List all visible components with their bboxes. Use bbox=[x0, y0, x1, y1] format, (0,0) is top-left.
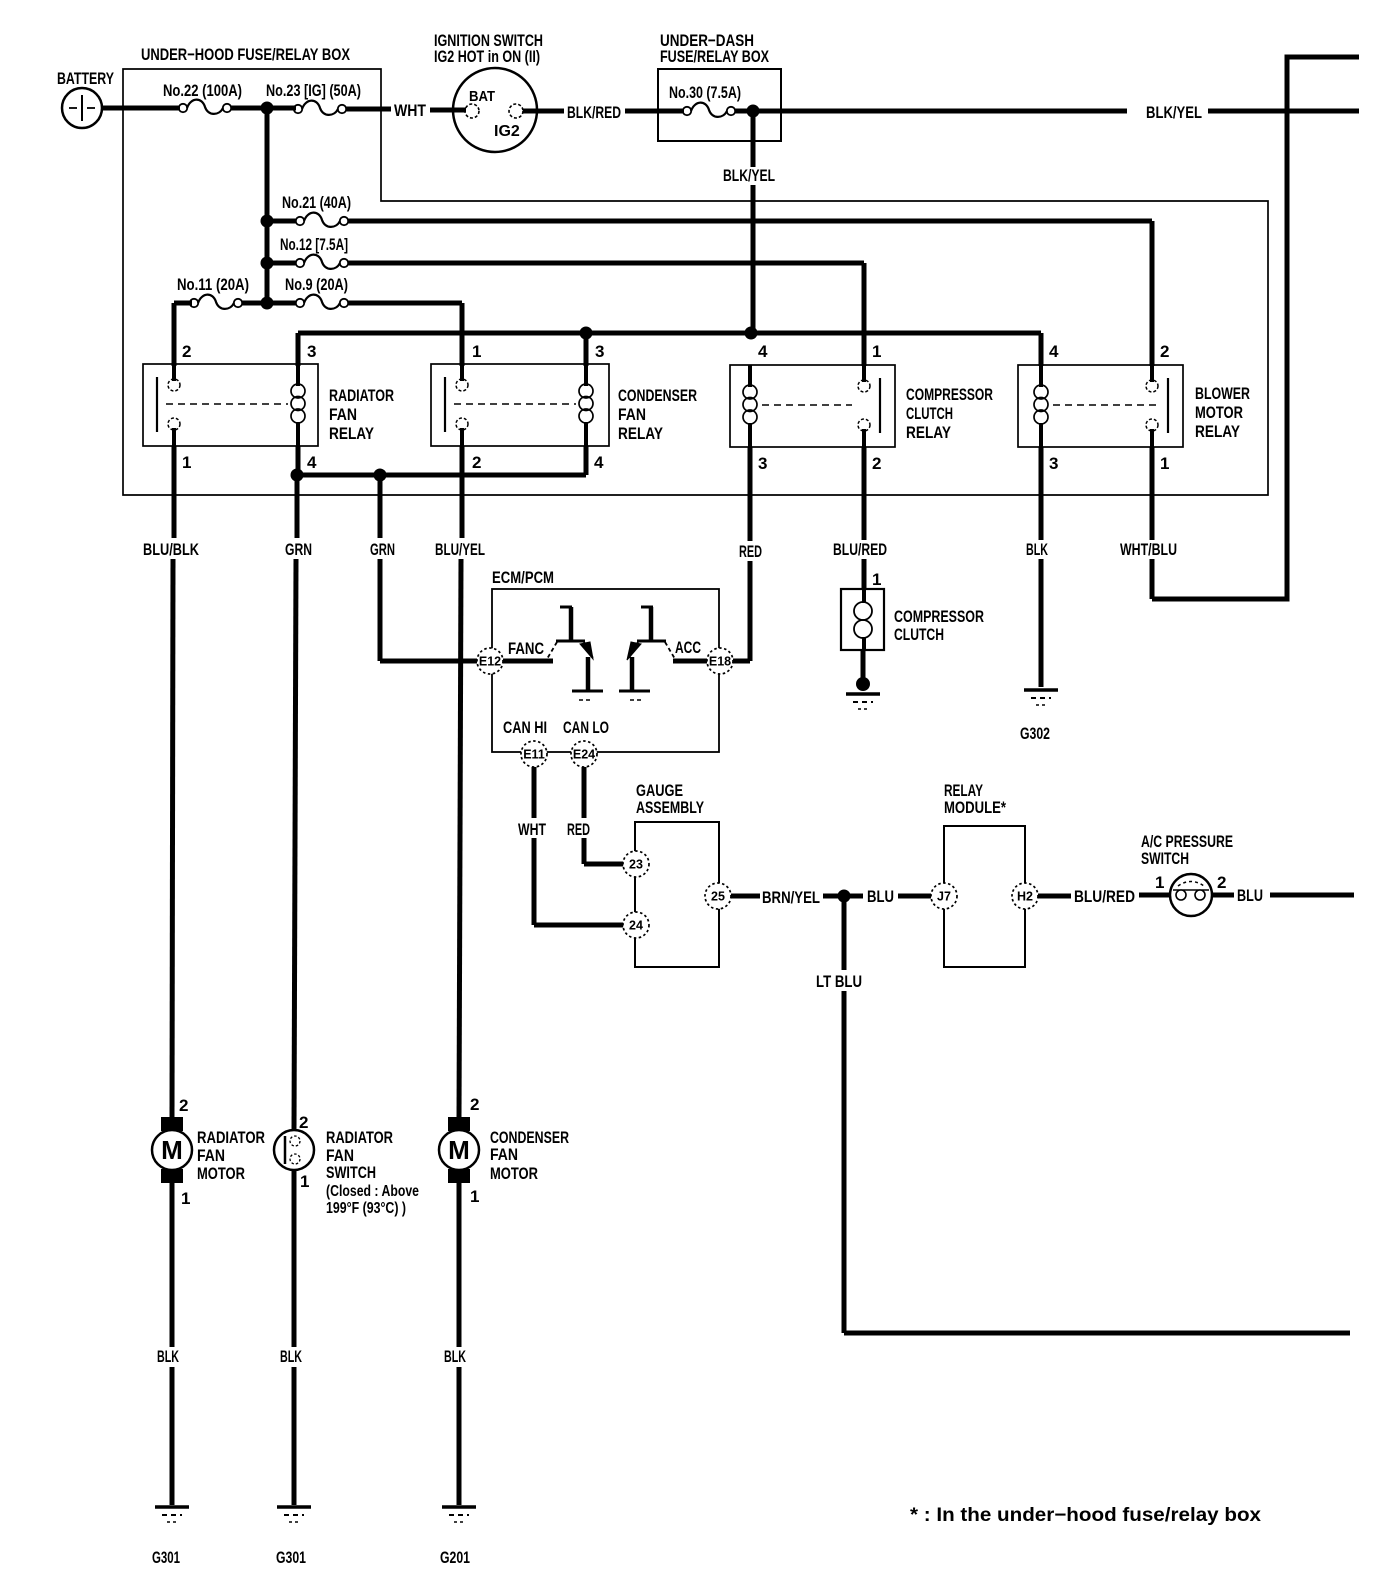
svg-text:J7: J7 bbox=[937, 890, 951, 904]
svg-text:1: 1 bbox=[181, 1189, 190, 1208]
svg-text:COMPRESSOR: COMPRESSOR bbox=[894, 607, 984, 626]
svg-text:2: 2 bbox=[179, 1096, 188, 1115]
svg-text:FANC: FANC bbox=[508, 639, 544, 658]
svg-text:CLUTCH: CLUTCH bbox=[894, 625, 944, 644]
svg-text:RADIATOR: RADIATOR bbox=[329, 386, 394, 405]
svg-text:1: 1 bbox=[472, 342, 481, 361]
svg-text:MODULE*: MODULE* bbox=[944, 798, 1006, 817]
svg-text:RADIATOR: RADIATOR bbox=[326, 1128, 393, 1147]
svg-text:MOTOR: MOTOR bbox=[1195, 403, 1243, 422]
svg-text:1: 1 bbox=[300, 1172, 309, 1191]
svg-text:WHT: WHT bbox=[518, 820, 546, 839]
svg-text:FAN: FAN bbox=[490, 1145, 518, 1164]
svg-text:COMPRESSOR: COMPRESSOR bbox=[906, 385, 993, 404]
svg-text:RELAY: RELAY bbox=[329, 424, 375, 443]
svg-text:1: 1 bbox=[1155, 873, 1164, 892]
svg-text:BLU/RED: BLU/RED bbox=[1074, 887, 1135, 906]
svg-text:BLK/YEL: BLK/YEL bbox=[723, 166, 775, 185]
svg-text:3: 3 bbox=[595, 342, 604, 361]
svg-text:ACC: ACC bbox=[675, 638, 701, 657]
svg-text:G301: G301 bbox=[152, 1548, 180, 1567]
svg-text:BLK/YEL: BLK/YEL bbox=[1146, 103, 1202, 122]
svg-text:BATTERY: BATTERY bbox=[57, 69, 114, 88]
svg-text:No.12 [7.5A]: No.12 [7.5A] bbox=[280, 236, 348, 254]
svg-text:UNDER−HOOD FUSE/RELAY BOX: UNDER−HOOD FUSE/RELAY BOX bbox=[141, 45, 350, 64]
svg-text:1: 1 bbox=[872, 570, 881, 589]
svg-text:4: 4 bbox=[307, 453, 317, 472]
svg-text:ASSEMBLY: ASSEMBLY bbox=[636, 798, 704, 817]
svg-text:BLOWER: BLOWER bbox=[1195, 384, 1250, 403]
svg-text:2: 2 bbox=[872, 454, 881, 473]
svg-text:SWITCH: SWITCH bbox=[326, 1163, 376, 1182]
svg-text:BLK: BLK bbox=[444, 1347, 466, 1366]
svg-text:1: 1 bbox=[182, 453, 191, 472]
svg-text:3: 3 bbox=[307, 342, 316, 361]
svg-text:BLK: BLK bbox=[157, 1347, 179, 1366]
svg-text:BLU: BLU bbox=[1237, 886, 1263, 905]
svg-text:IG2: IG2 bbox=[494, 123, 520, 140]
svg-text:WHT/BLU: WHT/BLU bbox=[1120, 540, 1177, 559]
svg-text:2: 2 bbox=[299, 1113, 308, 1132]
svg-text:E11: E11 bbox=[523, 748, 545, 762]
svg-text:H2: H2 bbox=[1017, 890, 1033, 904]
svg-text:No.30 (7.5A): No.30 (7.5A) bbox=[669, 84, 741, 102]
svg-text:1: 1 bbox=[872, 342, 881, 361]
svg-text:BRN/YEL: BRN/YEL bbox=[762, 888, 820, 907]
svg-text:3: 3 bbox=[1049, 454, 1058, 473]
svg-text:2: 2 bbox=[472, 453, 481, 472]
svg-text:2: 2 bbox=[470, 1095, 479, 1114]
svg-text:SWITCH: SWITCH bbox=[1141, 849, 1189, 868]
svg-text:BLU: BLU bbox=[867, 887, 894, 906]
svg-text:(Closed : Above: (Closed : Above bbox=[326, 1183, 419, 1200]
svg-text:BAT: BAT bbox=[469, 88, 495, 105]
svg-text:CAN HI: CAN HI bbox=[503, 718, 547, 737]
svg-text:4: 4 bbox=[1049, 342, 1059, 361]
svg-text:G301: G301 bbox=[276, 1548, 306, 1567]
svg-text:FUSE/RELAY BOX: FUSE/RELAY BOX bbox=[660, 47, 769, 66]
svg-text:24: 24 bbox=[629, 919, 643, 933]
svg-text:BLU/RED: BLU/RED bbox=[833, 540, 887, 559]
svg-text:GRN: GRN bbox=[370, 540, 395, 559]
svg-text:23: 23 bbox=[629, 858, 643, 872]
svg-text:E24: E24 bbox=[573, 748, 595, 762]
svg-text:4: 4 bbox=[758, 342, 768, 361]
svg-text:BLK: BLK bbox=[1026, 540, 1048, 559]
svg-text:FAN: FAN bbox=[618, 405, 646, 424]
svg-text:RELAY: RELAY bbox=[1195, 422, 1241, 441]
svg-text:GRN: GRN bbox=[285, 540, 312, 559]
svg-text:No.22 (100A): No.22 (100A) bbox=[163, 82, 242, 100]
svg-text:E12: E12 bbox=[479, 655, 501, 669]
svg-text:RED: RED bbox=[567, 820, 590, 839]
svg-text:CLUTCH: CLUTCH bbox=[906, 404, 953, 423]
svg-text:CAN LO: CAN LO bbox=[563, 718, 609, 737]
svg-text:No.21 (40A): No.21 (40A) bbox=[282, 194, 351, 212]
svg-text:25: 25 bbox=[711, 890, 725, 904]
svg-text:2: 2 bbox=[1160, 342, 1169, 361]
svg-text:RELAY: RELAY bbox=[618, 424, 664, 443]
svg-text:M: M bbox=[161, 1135, 183, 1165]
svg-text:No.23 [IG] (50A): No.23 [IG] (50A) bbox=[266, 82, 361, 100]
svg-text:3: 3 bbox=[758, 454, 767, 473]
svg-text:WHT: WHT bbox=[394, 101, 426, 120]
svg-text:* : In the under−hood fuse/rel: * : In the under−hood fuse/relay box bbox=[910, 1505, 1261, 1526]
svg-text:MOTOR: MOTOR bbox=[490, 1164, 538, 1183]
svg-text:No.9 (20A): No.9 (20A) bbox=[285, 276, 348, 294]
svg-text:E18: E18 bbox=[709, 655, 731, 669]
svg-text:RELAY: RELAY bbox=[906, 423, 952, 442]
svg-text:CONDENSER: CONDENSER bbox=[618, 386, 697, 405]
svg-text:2: 2 bbox=[182, 342, 191, 361]
svg-text:2: 2 bbox=[1217, 873, 1226, 892]
svg-text:IG2 HOT in ON (II): IG2 HOT in ON (II) bbox=[434, 47, 540, 66]
svg-text:BLU/YEL: BLU/YEL bbox=[435, 540, 485, 559]
svg-text:LT BLU: LT BLU bbox=[816, 972, 862, 991]
svg-text:RED: RED bbox=[739, 542, 762, 561]
svg-text:MOTOR: MOTOR bbox=[197, 1164, 245, 1183]
svg-text:1: 1 bbox=[470, 1187, 479, 1206]
svg-text:199°F (93°C) ): 199°F (93°C) ) bbox=[326, 1200, 406, 1217]
svg-text:BLK: BLK bbox=[280, 1347, 302, 1366]
svg-text:G201: G201 bbox=[440, 1548, 470, 1567]
svg-text:BLK/RED: BLK/RED bbox=[567, 103, 621, 122]
svg-text:G302: G302 bbox=[1020, 724, 1050, 743]
svg-text:4: 4 bbox=[594, 453, 604, 472]
svg-text:No.11 (20A): No.11 (20A) bbox=[177, 276, 249, 294]
svg-text:ECM/PCM: ECM/PCM bbox=[492, 568, 554, 587]
svg-text:RADIATOR: RADIATOR bbox=[197, 1128, 265, 1147]
svg-text:M: M bbox=[448, 1135, 470, 1165]
svg-text:FAN: FAN bbox=[197, 1146, 225, 1165]
svg-text:FAN: FAN bbox=[329, 405, 357, 424]
svg-text:BLU/BLK: BLU/BLK bbox=[143, 540, 200, 559]
svg-text:1: 1 bbox=[1160, 454, 1169, 473]
